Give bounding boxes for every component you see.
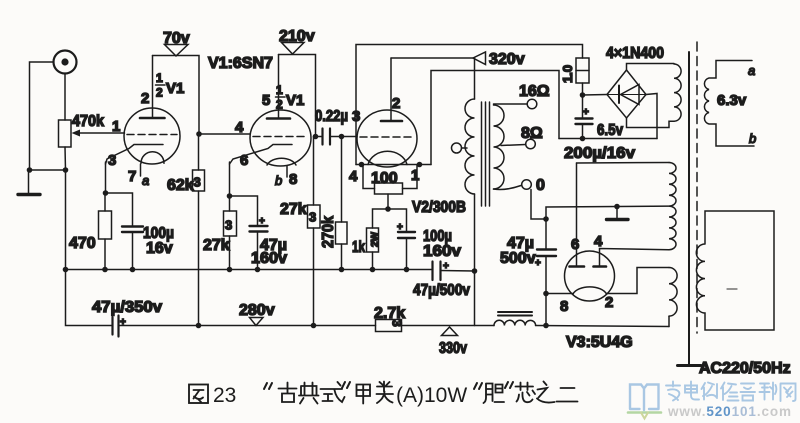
svg-text:4: 4 [349, 168, 358, 185]
wire V3 pin 2 to 5v winding [607, 268, 670, 294]
caption char xin [516, 383, 536, 403]
svg-text:a: a [142, 173, 149, 188]
svg-text:2: 2 [276, 98, 283, 112]
svg-text:270k: 270k [320, 216, 337, 248]
filament supply line upper to pin 4 [356, 45, 583, 165]
V1b grid (dashed) [253, 136, 308, 138]
svg-text:27k: 27k [203, 237, 230, 254]
wire bridge bottom AC to 6.5v winding [627, 118, 675, 128]
resistor 27k cathode [224, 196, 237, 270]
wire B+ node to V3 pin 8 [546, 293, 573, 295]
svg-text:2: 2 [141, 90, 149, 107]
node cathode junction [103, 190, 109, 196]
input jack J1 [54, 51, 77, 74]
svg-text:1: 1 [411, 167, 419, 184]
svg-text:62k: 62k [167, 177, 194, 194]
choke L1 [494, 320, 536, 325]
node secondary 0 ground [543, 216, 549, 222]
V1a heater dome [141, 152, 164, 164]
wire anode node to V1b grid pin 4 [199, 133, 250, 135]
output transformer T1 core [482, 102, 490, 206]
210v supply wires [279, 55, 316, 137]
wire to chassis ground [28, 170, 30, 193]
capacitor 100u/16v [106, 193, 144, 270]
svg-text:16v: 16v [146, 240, 173, 257]
label 100u 16v [143, 225, 174, 257]
svg-text:4: 4 [594, 233, 603, 250]
capacitor 0.22u coupling [316, 129, 342, 145]
capacitor 100u/160v bias bypass [388, 209, 415, 270]
V1b heater stub pin 8 b [286, 166, 288, 177]
resistor 270k grid leak [336, 137, 348, 270]
caption char lei [377, 382, 394, 404]
svg-text:8: 8 [289, 171, 297, 188]
node 27k load bottom on rail [311, 323, 317, 329]
svg-text:5: 5 [262, 92, 270, 109]
V1b cathode [230, 145, 293, 165]
svg-text:1k: 1k [352, 239, 365, 256]
wire to V2 grid [342, 136, 358, 138]
svg-text:+: + [583, 107, 589, 118]
V2 anode pin 2 [381, 58, 402, 121]
node ground junction left [27, 167, 33, 173]
caption open quote [264, 383, 272, 389]
output transformer T1 primary [465, 99, 475, 194]
bridge rectifier 4x1N400 [607, 70, 646, 118]
wire between ground junctions [30, 169, 66, 171]
caption close quote [342, 382, 350, 388]
caption char er [557, 388, 578, 402]
watermark char zi [741, 384, 756, 401]
power transformer 6.5v winding [674, 64, 681, 121]
svg-text:(A)10W: (A)10W [396, 384, 467, 407]
svg-text:V2/300B: V2/300B [412, 199, 466, 216]
polarity mark [727, 288, 737, 290]
caption char dian [299, 383, 319, 404]
watermark char liao [760, 383, 777, 400]
svg-text:23: 23 [213, 384, 236, 407]
svg-text:6.5v: 6.5v [597, 122, 623, 139]
watermark book icon [630, 385, 659, 411]
triode V2 300B envelope [357, 110, 417, 167]
power transformer HV winding [669, 163, 676, 250]
terminal 0 [522, 180, 532, 190]
320v triangle [473, 52, 486, 65]
node B+ takeoff [543, 291, 549, 297]
svg-text:3: 3 [108, 152, 116, 169]
svg-text:0.22µ: 0.22µ [315, 108, 348, 125]
V1a grid (dashed) [127, 134, 177, 136]
capacitor 200u/16v [576, 95, 593, 139]
label 1/2 V1 second [276, 83, 305, 112]
watermark char jia [666, 382, 680, 401]
wire HV top to V3 pin 6 [577, 162, 670, 165]
node 1k bottom [370, 267, 376, 273]
svg-text:47µ/350v: 47µ/350v [92, 299, 162, 316]
watermark char dian2 [685, 382, 699, 400]
node V1a anode node [196, 131, 202, 137]
power transformer core [688, 52, 690, 364]
wire B+ node down to rail [545, 294, 547, 326]
node 470 bottom [102, 267, 108, 273]
70v triangle [165, 45, 189, 57]
wire 0 tap [494, 186, 522, 190]
label 47u 160v [251, 237, 287, 267]
svg-text:www.520101.com: www.520101.com [667, 404, 792, 419]
svg-text:70v: 70v [163, 30, 190, 47]
node 100u bottom [130, 267, 136, 273]
node bus left corner [63, 267, 69, 273]
heater winding 6.3v [704, 61, 754, 147]
wire 16 ohm tap [494, 103, 528, 105]
watermark char wei [702, 383, 718, 400]
wire V2 anode to 320v corner [391, 58, 475, 99]
node 330v filter node [472, 268, 478, 274]
triode V1a envelope [124, 108, 180, 164]
watermark char xiu [721, 383, 739, 401]
node 270k bottom [339, 267, 345, 273]
watermark logo [628, 382, 796, 419]
svg-text:V1:6SN7: V1:6SN7 [208, 55, 273, 72]
svg-text:6: 6 [240, 152, 248, 169]
svg-text:AC220/50Hz: AC220/50Hz [699, 360, 791, 377]
svg-text:4×1N400: 4×1N400 [606, 45, 664, 62]
wire filter node down to rail [474, 271, 476, 326]
resistor 1.0 [576, 58, 589, 95]
node HV centertap ground stub [614, 204, 620, 210]
B+ rail left segment [66, 270, 113, 326]
svg-text:47µ/500v: 47µ/500v [413, 282, 470, 299]
node pot bottom junction [63, 167, 69, 173]
svg-text:470k: 470k [72, 113, 104, 130]
svg-text:V1: V1 [166, 80, 184, 97]
210v triangle [282, 43, 305, 55]
svg-text:27k: 27k [280, 201, 307, 218]
wire minus line [559, 138, 657, 140]
svg-text:3: 3 [309, 210, 316, 225]
wire T1 primary bottom to B+ node [474, 194, 476, 271]
svg-text:4: 4 [235, 119, 244, 136]
resistor 1k bias [367, 209, 389, 270]
power transformer 5v winding [669, 268, 677, 317]
node V1b anode node [313, 134, 319, 140]
T1 primary tap terminal [452, 143, 468, 153]
wire ground node to HV center tap [546, 206, 669, 219]
triode V1b envelope [250, 110, 311, 166]
ground bus left segment [66, 170, 433, 270]
node 27k bottom [227, 267, 233, 273]
svg-text:1.0: 1.0 [560, 65, 575, 83]
svg-text:160v: 160v [251, 250, 287, 267]
hum pot 100 [363, 165, 417, 210]
label 100u 160v second [423, 228, 461, 260]
node 100u160v bottom [404, 267, 410, 273]
V1a heater stub pin 7 a [140, 164, 142, 176]
caption close quote 2 [505, 382, 513, 388]
wire pot wiper to V1a grid pin 1 [79, 132, 125, 134]
caption char dan [484, 384, 505, 404]
wire bridge top AC to 6.5v winding [627, 64, 675, 71]
capacitor 47u/160v [230, 196, 268, 270]
wire jack bottom to pot top [64, 74, 66, 121]
caption figure 23 [189, 382, 578, 408]
V3 anode pin 6 [570, 163, 585, 267]
node bridge plus [580, 92, 586, 98]
svg-text:0: 0 [536, 177, 545, 194]
potentiometer 470k [59, 120, 81, 170]
280v triangle [250, 318, 264, 326]
resistor 27k anode load V1b [308, 137, 321, 326]
330v triangle [442, 327, 458, 336]
mains primary winding 220v [696, 211, 774, 330]
wire bridge minus [646, 94, 657, 139]
svg-text:+: + [535, 258, 541, 269]
svg-text:b: b [749, 131, 756, 146]
ground transformer core [678, 364, 702, 367]
caption char gu [279, 383, 297, 403]
terminal 8 ohm [526, 139, 536, 149]
B+ rail 280v segment [119, 325, 376, 327]
svg-text:8Ω: 8Ω [521, 125, 543, 142]
svg-text:2: 2 [156, 86, 163, 100]
svg-text:3: 3 [225, 218, 232, 233]
svg-text:320v: 320v [489, 51, 525, 68]
svg-text:2W: 2W [370, 231, 381, 247]
capacitor 47u/500v filter [433, 261, 475, 280]
svg-text:+: + [259, 216, 265, 227]
choke core bars [498, 312, 532, 316]
svg-text:7: 7 [128, 168, 136, 185]
V2 filament dome [368, 151, 407, 164]
svg-text:2: 2 [392, 95, 400, 112]
ground [18, 193, 40, 196]
node V2 grid node [339, 134, 345, 140]
caption open quote 2 [474, 383, 482, 389]
ground HV center tap [607, 207, 629, 220]
V2 grid (dashed) [360, 136, 414, 138]
svg-text:3: 3 [194, 175, 201, 190]
wire jack left to ground [30, 62, 54, 170]
output transformer T1 secondary [494, 105, 505, 189]
wire 0 terminal to ground node [531, 190, 546, 220]
capacitor 47u/350v [113, 316, 127, 337]
svg-text:+: + [443, 261, 449, 272]
svg-text:2: 2 [605, 294, 613, 311]
wire plus node to bridge [583, 94, 608, 97]
watermark char wang [781, 384, 796, 402]
svg-text:160v: 160v [423, 243, 461, 260]
node 47u160v bottom [255, 267, 261, 273]
terminal 16 ohm [527, 99, 537, 109]
svg-text:6.3v: 6.3v [717, 92, 747, 109]
svg-text:200µ/16v: 200µ/16v [564, 145, 635, 162]
B+ rail 330v segment [402, 325, 495, 327]
svg-text:16Ω: 16Ω [519, 83, 550, 100]
resistor 470 [99, 193, 112, 270]
svg-text:280v: 280v [239, 302, 275, 319]
svg-text:b: b [275, 173, 282, 188]
caption char zhi [537, 382, 555, 403]
svg-text:+: + [397, 222, 403, 233]
caption char shi [321, 382, 345, 402]
svg-text:6: 6 [571, 236, 579, 253]
V3 anode pin 4 [594, 249, 670, 267]
svg-text:330v: 330v [439, 340, 467, 357]
V1b anode pin 5 [267, 55, 290, 119]
svg-text:1: 1 [156, 71, 163, 85]
node 62k bottom on rail [196, 323, 202, 329]
node hum pot wiper [385, 206, 391, 212]
wire 8 ohm tap [501, 145, 526, 146]
node filament pin 4 [359, 162, 365, 168]
node choke right [543, 323, 549, 329]
V1b heater dome [267, 158, 296, 165]
capacitor 47u/500v reservoir [535, 219, 556, 294]
svg-text:+: + [120, 317, 126, 328]
caption char jia [357, 385, 371, 404]
svg-text:a: a [748, 63, 755, 78]
svg-text:210v: 210v [279, 28, 315, 45]
svg-text:1: 1 [112, 118, 120, 135]
label 1/2 V1 first [156, 71, 185, 100]
watermark url [667, 404, 792, 419]
B+ rail right segment [536, 326, 669, 327]
V1a cathode [106, 145, 164, 165]
svg-text:V1: V1 [286, 92, 304, 109]
node cap minus [580, 136, 586, 142]
V1a anode pin 2 [140, 56, 165, 119]
70v supply wires [153, 56, 200, 135]
rectifier V3 5U4G envelope [565, 251, 615, 301]
filament bar below V2 [356, 164, 431, 166]
wire 5v winding bottom to rail [668, 316, 670, 326]
caption char tu [189, 385, 208, 404]
svg-text:2.7k: 2.7k [374, 305, 405, 322]
V3 filament dome [573, 287, 607, 294]
node filament pin 1 [417, 162, 423, 168]
svg-text:500v: 500v [500, 250, 536, 267]
node V1b cathode junction [227, 193, 233, 199]
power transformer core dashed [696, 42, 698, 333]
resistor 62k [193, 134, 205, 326]
svg-text:8: 8 [560, 298, 568, 315]
filament supply line lower to pin 1 [431, 71, 559, 165]
wire V1a cathode down [105, 162, 107, 193]
svg-text:1: 1 [276, 83, 283, 97]
wire V1b cathode down [229, 162, 231, 196]
svg-text:470: 470 [69, 235, 96, 252]
svg-text:V3:5U4G: V3:5U4G [566, 334, 633, 351]
resistor 2.7k [376, 320, 405, 332]
label 47u 500v reservoir [500, 235, 536, 267]
